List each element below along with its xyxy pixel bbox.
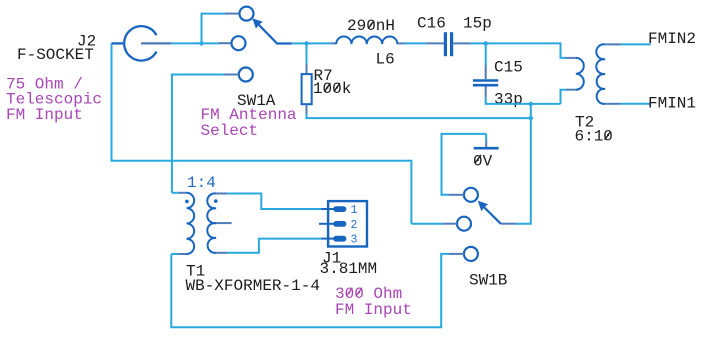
wire: T2 secondary bottom lead xyxy=(605,103,621,105)
wire: C15 bottom xyxy=(485,87,487,98)
wire: node A up to throw-1 branch xyxy=(202,14,226,44)
switch SW1B xyxy=(457,188,501,261)
wire: L6 to C16 xyxy=(397,42,404,44)
wire: R7 bottom to node D xyxy=(307,114,531,118)
transformer T1 right winding xyxy=(207,193,216,252)
wire: SW1A throw 3 to T1 xyxy=(224,74,239,76)
transformer T2 primary winding xyxy=(576,58,584,90)
capacitor C16 xyxy=(445,32,451,56)
resistor R7 xyxy=(302,74,312,104)
connector J1 xyxy=(319,201,367,246)
wire: node E down to SW1B arm xyxy=(516,104,530,224)
node D junction dot xyxy=(529,116,533,120)
T1 right phase dot xyxy=(214,199,218,203)
svg-text:15p: 15p xyxy=(463,15,492,33)
wire: ground stub xyxy=(485,134,487,141)
wire: shield bus drop x=411.4 xyxy=(410,160,412,224)
wire: node A to SW1A middle contact xyxy=(202,42,220,44)
svg-text:SW1B: SW1B xyxy=(469,272,507,290)
wire: node E to T2 primary return xyxy=(531,103,561,105)
wire: node B down to R7 xyxy=(306,43,308,63)
svg-text:L6: L6 xyxy=(376,51,395,69)
net FMIN1 wire xyxy=(621,103,651,105)
wire: node B to L6 xyxy=(307,42,331,44)
capacitor C15 xyxy=(473,81,498,86)
wire: node C to T2 primary top xyxy=(486,43,566,58)
T1 right middle tap xyxy=(216,222,232,224)
wire: T1 secondary top to J1 pin 1 xyxy=(227,194,321,210)
svg-text:3.81MM: 3.81MM xyxy=(320,260,378,278)
slashed zero marks (schematic font style) xyxy=(324,21,610,164)
svg-text:C15: C15 xyxy=(494,59,523,77)
ground 0V symbol xyxy=(474,147,499,150)
svg-text:3: 3 xyxy=(351,234,358,247)
svg-text:290nH: 290nH xyxy=(347,17,395,35)
pin stub to SW1A middle contact xyxy=(219,42,231,44)
pin stub to SW1A throw 1 xyxy=(225,13,239,15)
wire: R7 bottom lead xyxy=(306,104,308,114)
node C junction dot xyxy=(484,41,488,45)
pin stub SW1B bottom contact xyxy=(449,253,464,255)
switch SW1A xyxy=(232,7,292,82)
node A junction dot xyxy=(199,41,203,45)
T1 left phase dot xyxy=(185,200,189,204)
svg-text:2: 2 xyxy=(351,219,358,232)
wire: T2 secondary top lead xyxy=(605,43,621,45)
pin stub SW1B middle contact xyxy=(442,223,457,225)
connector J2 F-SOCKET symbol xyxy=(112,26,172,60)
node E junction dot xyxy=(529,102,533,106)
wire: shield bus to SW1B pole xyxy=(411,223,442,225)
svg-text:FM Input: FM Input xyxy=(335,301,412,319)
T1 right top lead xyxy=(216,193,227,195)
node B junction dot xyxy=(304,41,308,45)
wire: T1 secondary bottom to J1 pin 3 xyxy=(227,239,321,253)
svg-text:FMIN1: FMIN1 xyxy=(648,95,696,113)
svg-text:FM Input: FM Input xyxy=(6,106,83,124)
svg-text:33p: 33p xyxy=(494,91,523,109)
svg-text:100k: 100k xyxy=(313,80,351,98)
wire: C16 to node C xyxy=(453,42,470,44)
wire: F-socket to node A xyxy=(171,42,201,44)
wire: SW1A arm to node B xyxy=(292,42,307,44)
wire: SW1B bottom contact loop to T1 xyxy=(171,254,449,327)
T1 right bottom lead xyxy=(216,252,227,254)
wire: node C down to C15 xyxy=(485,43,487,65)
pin stub SW1B top contact xyxy=(449,194,464,196)
wire: T2 primary bottom lead xyxy=(566,89,576,91)
inductor L6 xyxy=(336,36,397,44)
svg-text:WB-XFORMER-1-4: WB-XFORMER-1-4 xyxy=(186,277,320,295)
svg-text:C16: C16 xyxy=(417,15,446,33)
transformer T1 left winding xyxy=(187,193,195,254)
wire: shield bus horizontal y=160.7 xyxy=(111,160,412,162)
svg-text:F-SOCKET: F-SOCKET xyxy=(17,46,94,64)
svg-text:Select: Select xyxy=(201,122,259,140)
wire: SW1B top contact to 0V xyxy=(442,134,487,195)
wire: F-socket shield drop left side xyxy=(111,43,113,160)
svg-text:1: 1 xyxy=(351,204,358,217)
T1 left top lead xyxy=(178,192,186,194)
svg-text:1:4: 1:4 xyxy=(187,174,216,192)
transformer T2 secondary winding xyxy=(596,44,605,104)
svg-text:FMIN2: FMIN2 xyxy=(648,30,696,48)
T1 left bottom lead xyxy=(178,253,186,255)
net FMIN2 wire xyxy=(621,43,651,45)
